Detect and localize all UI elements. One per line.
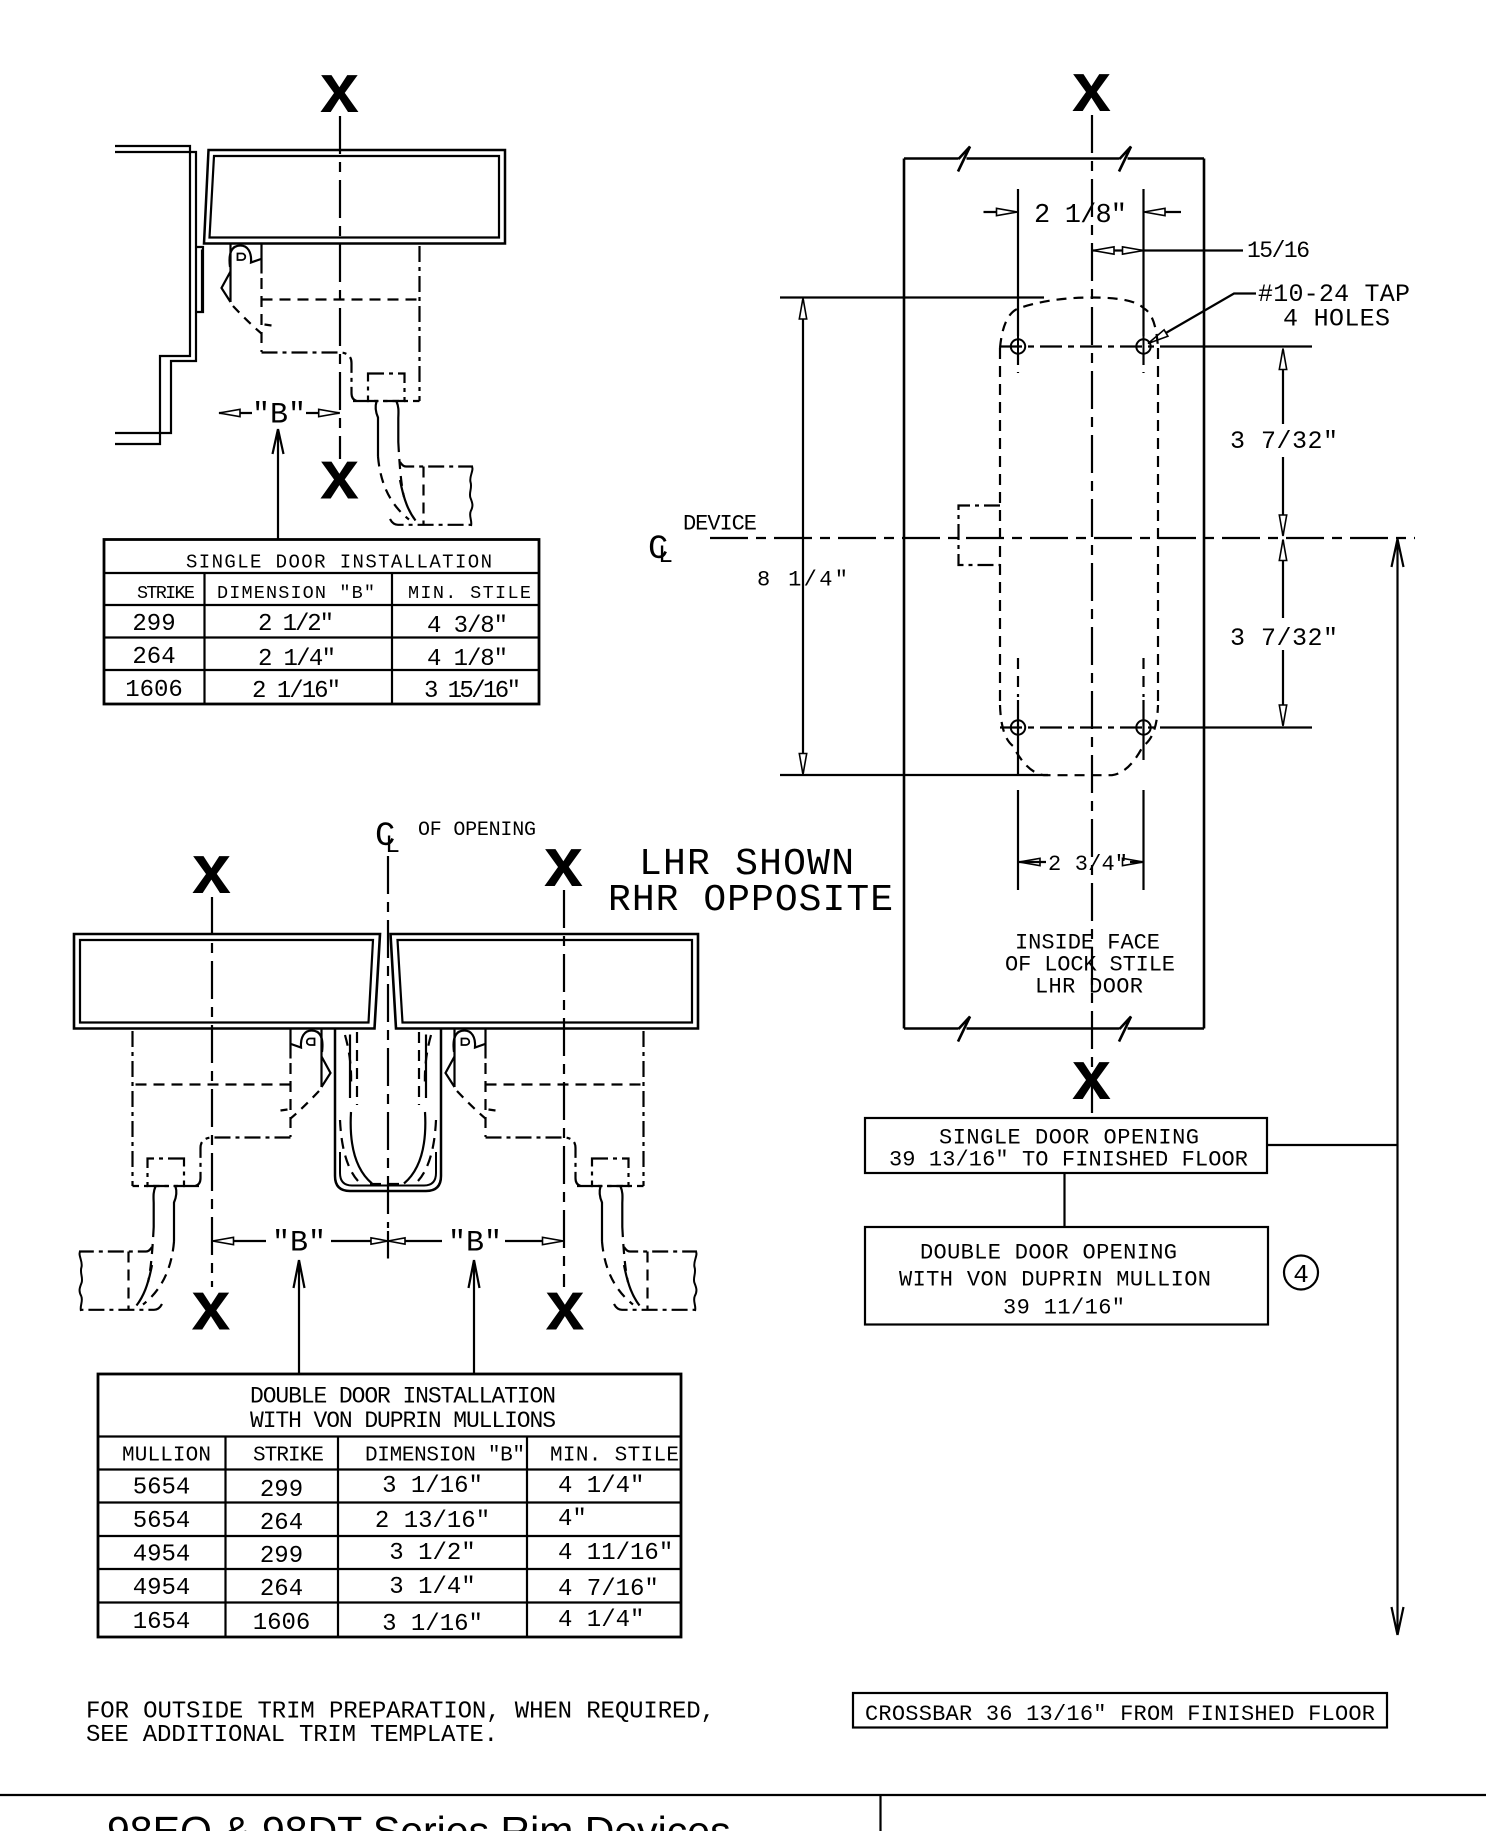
svg-text:"B": "B" — [272, 1227, 326, 1261]
svg-text:L: L — [658, 541, 673, 570]
svg-text:3 7/32": 3 7/32" — [1230, 427, 1338, 456]
svg-text:DOUBLE DOOR INSTALLATION: DOUBLE DOOR INSTALLATION — [250, 1384, 556, 1410]
svg-text:39 13/16" TO FINISHED FLOOR: 39 13/16" TO FINISHED FLOOR — [889, 1148, 1248, 1173]
svg-text:2 1/16": 2 1/16" — [252, 678, 341, 705]
svg-text:15/16: 15/16 — [1247, 238, 1310, 264]
svg-text:1606: 1606 — [125, 677, 183, 704]
svg-text:4954: 4954 — [133, 1575, 191, 1602]
svg-text:DIMENSION "B": DIMENSION "B" — [365, 1445, 525, 1468]
svg-text:264: 264 — [260, 1510, 303, 1537]
svg-text:2 1/2": 2 1/2" — [258, 611, 334, 638]
svg-text:3 1/4": 3 1/4" — [389, 1574, 475, 1601]
svg-text:STRIKE: STRIKE — [137, 583, 195, 604]
svg-text:1606: 1606 — [253, 1610, 311, 1637]
svg-text:x: x — [192, 1267, 231, 1345]
svg-text:3 1/2": 3 1/2" — [389, 1540, 475, 1567]
svg-text:4954: 4954 — [133, 1542, 191, 1569]
svg-text:4 3/8": 4 3/8" — [427, 613, 508, 640]
svg-text:4": 4" — [558, 1506, 587, 1533]
svg-text:MULLION: MULLION — [122, 1445, 211, 1468]
svg-text:x: x — [544, 823, 583, 901]
svg-text:x: x — [320, 436, 359, 514]
svg-text:DIMENSION "B": DIMENSION "B" — [217, 583, 375, 604]
svg-text:x: x — [320, 49, 359, 127]
svg-text:264: 264 — [260, 1576, 303, 1603]
svg-text:2 3/4": 2 3/4" — [1048, 852, 1128, 877]
svg-text:2 1/8": 2 1/8" — [1034, 201, 1127, 231]
svg-text:SINGLE DOOR INSTALLATION: SINGLE DOOR INSTALLATION — [186, 552, 492, 574]
svg-text:SEE ADDITIONAL TRIM TEMPLATE.: SEE ADDITIONAL TRIM TEMPLATE. — [86, 1722, 498, 1749]
svg-text:WITH VON DUPRIN MULLION: WITH VON DUPRIN MULLION — [899, 1268, 1211, 1293]
svg-text:3 15/16": 3 15/16" — [424, 678, 521, 705]
svg-text:39 11/16": 39 11/16" — [1003, 1296, 1125, 1321]
svg-text:DEVICE: DEVICE — [683, 512, 757, 537]
svg-text:OF OPENING: OF OPENING — [418, 819, 536, 842]
svg-text:LHR DOOR: LHR DOOR — [1035, 975, 1143, 1000]
svg-text:5654: 5654 — [133, 1475, 191, 1502]
svg-text:"B": "B" — [448, 1227, 502, 1261]
svg-text:3 7/32": 3 7/32" — [1230, 624, 1338, 653]
svg-text:L: L — [385, 831, 400, 860]
svg-text:3 1/16": 3 1/16" — [382, 1611, 483, 1638]
svg-text:x: x — [1072, 48, 1111, 126]
svg-text:4 1/4": 4 1/4" — [558, 1607, 644, 1634]
svg-text:4 7/16": 4 7/16" — [558, 1576, 659, 1603]
svg-text:DOUBLE DOOR OPENING: DOUBLE DOOR OPENING — [920, 1241, 1177, 1266]
svg-text:4 11/16": 4 11/16" — [558, 1540, 673, 1567]
svg-text:CROSSBAR 36 13/16" FROM FINISH: CROSSBAR 36 13/16" FROM FINISHED FLOOR — [865, 1702, 1375, 1727]
svg-text:4 1/8": 4 1/8" — [427, 646, 508, 673]
svg-text:x: x — [1072, 1036, 1111, 1114]
svg-text:MIN. STILE: MIN. STILE — [550, 1445, 679, 1468]
svg-text:2 1/4": 2 1/4" — [258, 646, 336, 673]
svg-text:4 HOLES: 4 HOLES — [1283, 305, 1390, 334]
svg-text:299: 299 — [260, 1543, 303, 1570]
svg-text:2 13/16": 2 13/16" — [375, 1508, 490, 1535]
svg-text:98EO & 98DT Series Rim Devices: 98EO & 98DT Series Rim Devices — [107, 1808, 731, 1831]
svg-text:4: 4 — [1293, 1260, 1309, 1290]
svg-text:MIN. STILE: MIN. STILE — [408, 583, 531, 604]
svg-text:STRIKE: STRIKE — [253, 1445, 324, 1468]
svg-text:5654: 5654 — [133, 1508, 191, 1535]
svg-text:"B": "B" — [252, 399, 306, 433]
svg-text:x: x — [192, 830, 231, 908]
svg-text:RHR OPPOSITE: RHR OPPOSITE — [608, 879, 893, 922]
svg-text:4 1/4": 4 1/4" — [558, 1473, 644, 1500]
svg-text:264: 264 — [132, 644, 175, 671]
svg-text:3 1/16": 3 1/16" — [382, 1473, 483, 1500]
svg-text:299: 299 — [132, 611, 175, 638]
svg-text:299: 299 — [260, 1477, 303, 1504]
svg-text:1654: 1654 — [133, 1609, 191, 1636]
svg-text:WITH VON DUPRIN MULLIONS: WITH VON DUPRIN MULLIONS — [250, 1408, 556, 1434]
